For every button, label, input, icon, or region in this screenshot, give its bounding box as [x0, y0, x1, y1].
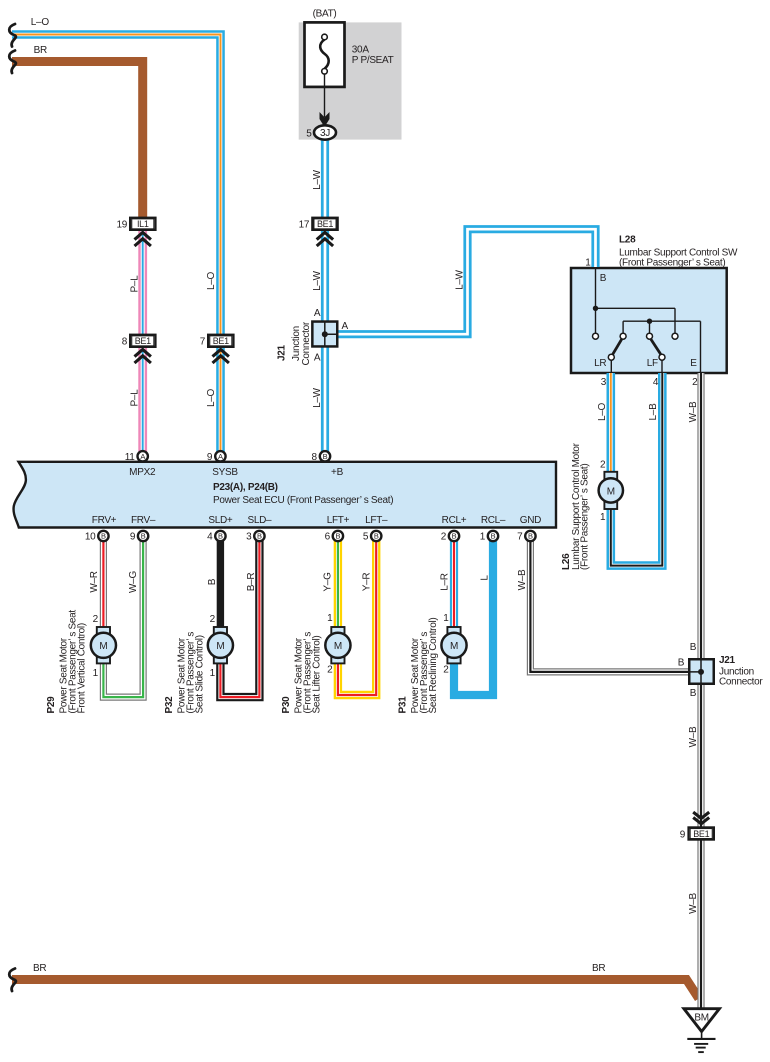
L28 switch arm LR [613, 339, 622, 354]
svg-text:3J: 3J [320, 128, 330, 139]
wire W-B from ECU pin 7 GND to J21 junction [530, 536, 699, 672]
svg-text:MPX2: MPX2 [129, 467, 156, 478]
switch L28 box [571, 268, 727, 373]
svg-text:2: 2 [93, 614, 99, 625]
svg-text:J21: J21 [719, 655, 736, 666]
svg-text:1: 1 [600, 512, 606, 523]
wire W-R from ECU pin 10 FRV+ to motor P29 [100, 536, 107, 629]
wire B from ECU pin 4 SLD+ to motor P32 [217, 536, 224, 629]
connector BE1 pin 9 [689, 827, 714, 839]
wire L-R from ECU pin 2 RCL+ to motor P31 [450, 536, 458, 629]
svg-text:P29: P29 [46, 696, 57, 714]
svg-text:B: B [600, 273, 607, 284]
svg-text:B–R: B–R [246, 573, 257, 592]
connector BE1 pin 8 [130, 335, 155, 347]
chevron below IL1 [135, 232, 151, 246]
svg-text:M: M [99, 641, 107, 652]
svg-text:BE1: BE1 [317, 219, 333, 229]
svg-text:L–W: L–W [312, 387, 323, 408]
chevron below BE1-17 [317, 232, 333, 246]
ECU pin 8 (B) +B [320, 451, 330, 461]
svg-text:SLD+: SLD+ [208, 515, 233, 526]
wire L-O from L28 pin 3 LR to motor L26 [606, 373, 615, 473]
svg-text:2: 2 [327, 665, 333, 676]
svg-text:M: M [450, 641, 458, 652]
svg-text:LFT–: LFT– [365, 515, 388, 526]
svg-text:2: 2 [600, 460, 606, 471]
svg-text:BR: BR [592, 963, 605, 974]
svg-text:W–B: W–B [688, 726, 699, 747]
svg-text:B: B [690, 642, 697, 653]
svg-text:1: 1 [585, 258, 591, 269]
svg-text:5: 5 [363, 532, 369, 543]
svg-text:P32: P32 [164, 696, 175, 714]
motor P29 front vertical [91, 627, 116, 663]
svg-text:P30: P30 [281, 696, 292, 714]
svg-text:BE1: BE1 [693, 829, 709, 839]
svg-text:Seat Slide Control): Seat Slide Control) [195, 635, 206, 713]
wire Y-G from ECU pin 6 LFT+ to motor P30 [334, 536, 342, 629]
svg-text:P–L: P–L [130, 275, 141, 293]
svg-text:P31: P31 [398, 696, 409, 714]
wire W-G from motor P29 to ECU pin 9 FRV- [103, 536, 143, 697]
svg-text:+B: +B [331, 467, 344, 478]
svg-text:W–B: W–B [688, 892, 699, 913]
L28 junction dots [593, 306, 598, 311]
svg-text:L–W: L–W [312, 169, 323, 190]
svg-text:1: 1 [93, 668, 99, 679]
svg-text:W–B: W–B [688, 401, 699, 422]
svg-text:1: 1 [210, 668, 216, 679]
svg-text:L–O: L–O [206, 388, 217, 407]
svg-text:A: A [140, 452, 145, 461]
svg-text:Seat Reclining Control): Seat Reclining Control) [428, 618, 439, 714]
wire L-O from left edge to BE1-7 to ECU pin 9 SYSB [12, 35, 221, 458]
svg-text:W–B: W–B [517, 569, 528, 590]
svg-text:B: B [678, 658, 685, 669]
svg-text:7: 7 [517, 532, 523, 543]
motor P30 lifter [325, 627, 350, 663]
svg-text:LR: LR [594, 358, 606, 369]
wire break squiggle at BR left end [9, 51, 16, 74]
wire break squiggle at bottom BR left end [9, 969, 16, 992]
svg-text:L–O: L–O [597, 402, 608, 421]
svg-text:(BAT): (BAT) [313, 9, 337, 20]
svg-text:A: A [342, 321, 349, 332]
svg-text:B: B [528, 532, 533, 541]
svg-text:W–R: W–R [89, 571, 100, 592]
svg-text:E: E [690, 358, 697, 369]
svg-text:19: 19 [116, 220, 127, 231]
svg-text:(Front Passenger’ s Seat): (Front Passenger’ s Seat) [619, 258, 725, 269]
chevron below BE1-8 [135, 349, 151, 363]
svg-text:Front Vertical Control): Front Vertical Control) [77, 623, 88, 713]
svg-text:SYSB: SYSB [212, 467, 238, 478]
svg-text:BM: BM [694, 1013, 708, 1024]
connector IL1 pin 19 [130, 218, 155, 230]
wire Y-R from motor P30 to ECU pin 5 LFT- [338, 536, 376, 695]
wire W-B from L28 pin 2 E through J21 and BE1 to BM ground [697, 373, 704, 1009]
L28 moving contact leads to pins 3 and 4 [611, 360, 662, 373]
svg-text:L28: L28 [619, 234, 636, 245]
svg-text:BE1: BE1 [135, 336, 151, 346]
svg-text:7: 7 [200, 337, 206, 348]
svg-text:8: 8 [122, 337, 128, 348]
svg-text:B: B [141, 532, 146, 541]
svg-text:Power Seat ECU (Front Passenge: Power Seat ECU (Front Passenger’ s Seat) [213, 495, 393, 506]
svg-text:L–W: L–W [312, 270, 323, 291]
svg-text:FRV+: FRV+ [92, 515, 117, 526]
svg-text:B: B [323, 452, 328, 461]
svg-text:P P/SEAT: P P/SEAT [352, 55, 394, 66]
svg-text:5: 5 [306, 128, 312, 139]
motor P32 slide [208, 627, 233, 663]
chevron above BE1-9 (pointing down) [693, 812, 709, 824]
svg-text:9: 9 [130, 532, 136, 543]
ECU bottom pins (B) x9 [98, 531, 535, 541]
battery supply gray area [299, 22, 402, 139]
svg-text:FRV–: FRV– [131, 515, 156, 526]
svg-text:B: B [218, 532, 223, 541]
svg-text:B: B [491, 532, 496, 541]
svg-text:L–B: L–B [648, 403, 659, 421]
svg-text:J21: J21 [277, 344, 288, 361]
svg-text:8: 8 [312, 452, 318, 463]
wire L-B from motor L26 to L28 pin 4 LF [611, 373, 663, 566]
svg-text:Y–G: Y–G [323, 572, 334, 592]
wire break squiggle at L-O left end [9, 24, 16, 47]
ground symbol bars [701, 1032, 703, 1039]
svg-text:2: 2 [692, 377, 698, 388]
svg-text:A: A [314, 352, 321, 363]
svg-text:B: B [336, 532, 341, 541]
motor L26 lumbar [599, 472, 623, 509]
svg-text:LF: LF [647, 358, 658, 369]
fuse 30A P P/SEAT box [305, 22, 345, 87]
node 3J oval, pin 5 [314, 125, 336, 139]
svg-text:3: 3 [601, 377, 607, 388]
ground BM triangle [684, 1009, 720, 1032]
svg-text:L–R: L–R [440, 573, 451, 591]
svg-text:4: 4 [207, 532, 213, 543]
svg-text:A: A [218, 452, 223, 461]
svg-text:M: M [334, 641, 342, 652]
fuse element [320, 40, 329, 69]
svg-text:(Front Passenger’ s Seat): (Front Passenger’ s Seat) [580, 464, 591, 570]
chevron below BE1-7 [213, 349, 229, 363]
svg-text:1: 1 [327, 613, 333, 624]
svg-text:Connector: Connector [719, 676, 763, 687]
svg-text:Seat Lifter Control): Seat Lifter Control) [312, 636, 323, 714]
L28 fixed contacts [593, 333, 679, 360]
svg-text:9: 9 [207, 452, 213, 463]
motor P31 reclining [441, 627, 466, 663]
svg-text:4: 4 [653, 377, 659, 388]
svg-text:Y–R: Y–R [362, 573, 373, 592]
wire P-L from IL1 to BE1-8 to ECU pin 11 MPX2 [138, 230, 147, 457]
L28 switch arm LF [651, 339, 661, 354]
svg-text:LFT+: LFT+ [327, 515, 350, 526]
svg-text:P23(A), P24(B): P23(A), P24(B) [213, 482, 278, 493]
svg-text:2: 2 [441, 532, 447, 543]
svg-text:W–G: W–G [128, 571, 139, 593]
svg-text:SLD–: SLD– [247, 515, 272, 526]
ECU pin 11 (A) MPX2 [138, 451, 148, 461]
connector BE1 pin 7 [208, 335, 233, 347]
lead from fuse to 3J with arrowhead [324, 74, 326, 117]
svg-text:BE1: BE1 [213, 336, 229, 346]
connector BE1 pin 17 [312, 218, 337, 230]
wire L from motor P31 to ECU pin 1 RCL- [454, 536, 493, 695]
junction connector J21 (lower, net B) [689, 659, 714, 685]
svg-text:L–O: L–O [31, 17, 50, 28]
svg-text:IL1: IL1 [137, 219, 149, 229]
wire L-W from 3J to BE1-17 to J21 to ECU pin 8 +B [321, 139, 329, 457]
svg-text:B: B [690, 688, 697, 699]
svg-text:B: B [207, 578, 218, 585]
svg-text:A: A [314, 308, 321, 319]
L28 internal switch: feed line from pin B [596, 268, 701, 373]
svg-text:B: B [257, 532, 262, 541]
wire BR bottom from left edge joining ground wire [12, 980, 699, 999]
svg-text:RCL+: RCL+ [442, 515, 467, 526]
svg-text:RCL–: RCL– [481, 515, 506, 526]
svg-text:10: 10 [85, 532, 96, 543]
wire L-W branch from J21 to L28 pin 1 [338, 229, 596, 334]
ECU pin 9 (A) SYSB [215, 451, 225, 461]
svg-text:L–W: L–W [455, 269, 466, 290]
svg-text:B: B [374, 532, 379, 541]
svg-text:2: 2 [210, 614, 216, 625]
svg-text:L: L [480, 575, 491, 581]
svg-text:1: 1 [443, 613, 449, 624]
svg-text:P–L: P–L [130, 389, 141, 407]
svg-text:GND: GND [520, 515, 541, 526]
svg-text:BR: BR [34, 45, 47, 56]
ECU P23(A),P24(B) Power Seat ECU box [14, 462, 556, 528]
svg-text:3: 3 [246, 532, 252, 543]
svg-text:9: 9 [680, 829, 686, 840]
svg-text:B: B [452, 532, 457, 541]
svg-text:M: M [607, 486, 615, 497]
svg-text:B: B [101, 532, 106, 541]
svg-text:1: 1 [480, 532, 486, 543]
svg-text:2: 2 [443, 665, 449, 676]
wire BR from left edge to IL1 [12, 62, 143, 220]
svg-text:Connector: Connector [301, 321, 312, 365]
svg-text:6: 6 [325, 532, 331, 543]
svg-text:L–O: L–O [206, 271, 217, 290]
junction connector J21 (upper, net A) [312, 321, 338, 347]
svg-text:17: 17 [299, 220, 310, 231]
svg-text:M: M [216, 641, 224, 652]
svg-text:BR: BR [33, 963, 46, 974]
svg-text:11: 11 [125, 452, 136, 463]
wire B-R from motor P32 to ECU pin 3 SLD- [220, 536, 259, 697]
